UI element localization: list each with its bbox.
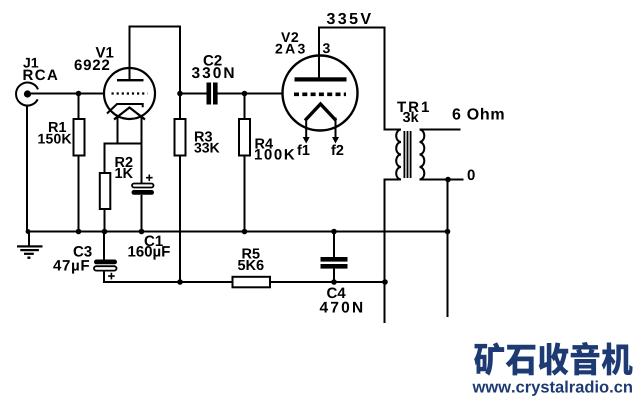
V1 cathode — [107, 104, 143, 114]
resistor R4 — [239, 119, 250, 156]
capacitor C1 electrolytic — [132, 184, 155, 195]
label R4 — [255, 139, 272, 149]
wire secondary to ground bus — [447, 180, 449, 318]
wire C4 top lead — [333, 232, 335, 258]
ground symbol — [17, 232, 43, 259]
wire R4 bottom lead — [244, 156, 246, 232]
V1 anode plate — [117, 79, 144, 81]
wire TR1 primary bottom — [384, 179, 402, 181]
label terminal 0 — [468, 170, 475, 181]
node C4 top ground bus — [331, 229, 337, 235]
wire J1 to V1 grid — [28, 93, 105, 95]
label 6 Ohm — [453, 108, 504, 120]
wire ground bus — [27, 231, 449, 233]
logo crystalradio Chinese wordmark — [474, 342, 632, 376]
label V2 type 2A3 — [275, 44, 304, 54]
wire feedback left segment — [103, 281, 233, 283]
V2 f1 arrowhead — [303, 137, 310, 144]
node R4 junction — [242, 91, 248, 97]
label V2 — [281, 32, 298, 42]
label 335V — [327, 13, 371, 24]
tube V1 envelope — [104, 68, 155, 119]
V2 filament — [305, 104, 336, 121]
wire V1 anode top rail — [129, 26, 182, 28]
node secondary to ground bus — [445, 229, 451, 235]
label TR1 — [397, 102, 429, 112]
node primary to feedback wire — [382, 279, 388, 285]
wire R2 top lead — [104, 144, 106, 174]
connector J1 RCA jack — [16, 83, 38, 106]
resistor R1 — [74, 119, 85, 156]
label R1 — [49, 122, 66, 132]
label R5 — [242, 249, 259, 259]
label R2 value 1K — [115, 168, 132, 178]
wire C4 bottom lead — [333, 269, 335, 282]
node C1 ground bus — [139, 229, 145, 235]
TR1 core — [404, 131, 412, 178]
wire C2 to R4 node — [218, 93, 245, 95]
label RCA — [24, 70, 58, 81]
wire V2 anode lead pin 3 — [318, 28, 320, 78]
label R3 — [195, 131, 212, 141]
capacitor C3 electrolytic — [94, 260, 117, 271]
wire V2 filament leg f1 — [305, 118, 307, 139]
wire secondary top 6 Ohm — [420, 129, 461, 131]
wire R2 bottom lead — [104, 209, 106, 232]
label C3 — [74, 246, 92, 257]
V2 grid (dashed) — [294, 93, 346, 97]
V1 grid (dotted) — [112, 92, 148, 94]
label R1 value 150K — [38, 134, 71, 144]
wire R3 top lead — [179, 94, 181, 120]
label C4 value 470N — [320, 302, 362, 313]
TR1 secondary winding — [420, 130, 425, 180]
label V1 — [96, 47, 114, 57]
label C2 — [204, 55, 222, 66]
resistor R3 — [175, 119, 186, 156]
node C4 bottom junction — [331, 279, 337, 285]
wire junction to C2 — [180, 93, 207, 95]
wire stub below feedback node — [384, 282, 386, 323]
wire C1 top lead — [141, 144, 143, 184]
label C1 — [145, 236, 163, 247]
logo url www.crystalradio.cn — [472, 381, 631, 396]
TR1 primary winding — [396, 130, 401, 180]
label V2 pin 3 — [323, 43, 330, 53]
label R2 — [115, 157, 132, 167]
wire C3 bottom lead — [103, 271, 105, 282]
wire J1 ground lead — [26, 105, 28, 232]
wire C1 bottom lead — [141, 195, 143, 232]
resistor R2 — [100, 173, 111, 209]
capacitor C4 — [321, 257, 348, 269]
node R1 to ground bus — [76, 229, 82, 235]
wire TR1 primary top — [384, 129, 402, 131]
wire R4 top lead — [244, 94, 246, 120]
wire C3 top lead — [103, 232, 105, 260]
label f1 — [297, 144, 309, 155]
capacitor C2 — [207, 83, 218, 105]
wire R1 bottom lead — [78, 156, 80, 232]
C1 plus sign — [146, 175, 153, 182]
wire rail down to C2 node — [179, 26, 181, 94]
label f2 — [331, 144, 343, 155]
label TR1 value 3k — [403, 111, 419, 122]
wire V1 cathode leg right — [141, 117, 143, 145]
wire R3 bottom lead — [179, 156, 181, 283]
node R3 to feedback wire — [177, 279, 183, 285]
label C1 value 160uF — [128, 246, 169, 260]
V1 heater filament — [114, 108, 145, 120]
label J1 — [23, 58, 38, 68]
label R3 value 33K — [194, 143, 219, 153]
wire feedback right segment — [270, 281, 385, 283]
wire V1 cathode bus — [104, 143, 143, 145]
wire R4 node to V2 grid — [245, 93, 284, 95]
V2 anode plate — [295, 77, 347, 81]
node secondary bottom junction — [445, 177, 451, 183]
wire V1 cathode leg left — [117, 117, 119, 145]
wire V2 filament leg f2 — [335, 118, 337, 139]
label C2 value 330N — [192, 67, 234, 78]
node J1 ground to bus — [26, 229, 31, 234]
node R2 C3 ground bus — [102, 229, 108, 235]
node R4 to ground bus — [242, 229, 248, 235]
resistor R5 — [233, 277, 271, 288]
wire rail down to TR1 primary — [384, 28, 386, 131]
wire primary bottom down — [384, 180, 386, 283]
tube V2 envelope — [283, 56, 358, 131]
label C4 — [327, 288, 345, 299]
V2 f2 arrowhead — [332, 137, 339, 144]
wire 335V rail — [318, 27, 386, 29]
label C3 value 47uF — [53, 260, 89, 273]
label V1 type 6922 — [75, 60, 110, 71]
node C2 R3 junction — [177, 91, 183, 97]
C3 plus sign — [108, 273, 115, 280]
label R4 value 100K — [255, 149, 295, 160]
wire R1 top lead — [78, 94, 80, 120]
label R5 value 5K6 — [238, 260, 264, 270]
wire secondary bottom — [420, 179, 464, 181]
wire V1 anode lead — [129, 27, 131, 80]
node input junction — [76, 91, 82, 97]
